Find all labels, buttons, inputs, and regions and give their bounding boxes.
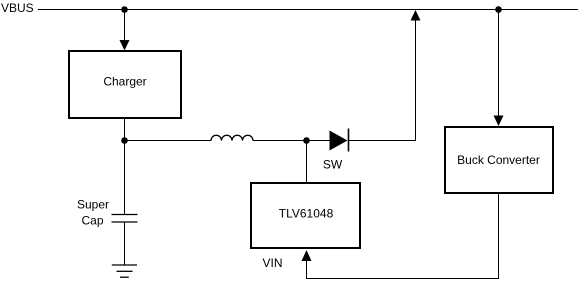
svg-text:SW: SW (323, 158, 343, 172)
wire SW node down to TLV61048 top (306, 141, 308, 183)
svg-text:Buck Converter: Buck Converter (457, 153, 540, 167)
wire junction down to Super Cap (124, 141, 126, 215)
svg-text:Super: Super (77, 198, 109, 212)
wire from VBUS dot down to Buck Converter (498, 10, 500, 117)
block Charger (69, 51, 181, 118)
capacitor Super Cap (112, 215, 138, 223)
svg-text:Cap: Cap (81, 214, 103, 228)
wire Buck Converter bottom down, left, and up to TLV61048 (307, 194, 499, 279)
inductor L1 (211, 135, 253, 140)
wire capacitor to ground (124, 222, 126, 265)
ground (112, 265, 137, 277)
arrowhead into Charger top (120, 40, 130, 51)
svg-text:TLV61048: TLV61048 (279, 207, 334, 221)
diode D1 (330, 129, 349, 152)
label Super Cap (77, 198, 109, 228)
wire VBUS top rail (38, 9, 578, 11)
svg-text:VBUS: VBUS (1, 1, 34, 15)
wire Charger bottom to junction (124, 118, 126, 141)
junction dot at SW node (303, 137, 310, 144)
wire junction to inductor (125, 140, 212, 142)
arrowhead up into VBUS rail (411, 10, 421, 21)
junction dot on VBUS rail above Buck Converter (495, 6, 502, 13)
svg-text:VIN: VIN (262, 256, 282, 270)
block TLV61048 (251, 183, 360, 248)
junction dot below Charger (121, 137, 128, 144)
wire inductor to diode anode (253, 140, 330, 142)
junction dot on VBUS rail above Charger (121, 6, 128, 13)
wire diode cathode right then up to VBUS rail (349, 20, 416, 141)
arrowhead into Buck Converter top (494, 116, 504, 127)
block Buck Converter (445, 127, 553, 193)
arrowhead up into TLV61048 bottom (302, 250, 312, 261)
wire from VBUS dot down to Charger (124, 10, 126, 42)
svg-text:Charger: Charger (103, 75, 146, 89)
